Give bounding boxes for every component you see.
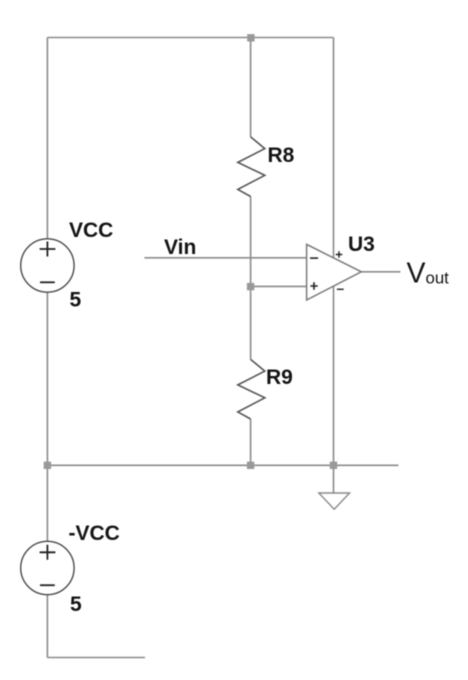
- wire left rail upper (top rail to V1 top): [46, 38, 48, 239]
- wire Vin input to U3 inverting input: [144, 257, 306, 259]
- pin mark plus (positive supply): [336, 251, 343, 258]
- pin mark minus (negative supply): [337, 288, 344, 290]
- wire bottom horizontal: [47, 657, 145, 659]
- junction node top rail / middle branch: [247, 34, 254, 41]
- op-amp U3: [307, 244, 362, 300]
- ground: [319, 493, 350, 509]
- resistor R8: [238, 137, 265, 197]
- pin mark minus (inverting input): [310, 257, 318, 259]
- wire right supply rail (top rail through U3 to ground bus): [333, 38, 335, 466]
- svg-text:5: 5: [70, 593, 82, 616]
- junction node bus right: [330, 462, 337, 469]
- junction node bus middle: [247, 462, 254, 469]
- svg-text:U3: U3: [348, 233, 375, 256]
- wire middle top (top rail to R8): [250, 38, 252, 137]
- wire V2 bottom down: [46, 595, 48, 658]
- svg-text:-VCC: -VCC: [69, 522, 120, 545]
- voltage source V1 (VCC): [21, 239, 74, 292]
- wire node A to U3 non-inverting input: [251, 285, 307, 287]
- voltage source V2 (-VCC): [21, 541, 74, 594]
- wire left rail lower (V1 bottom to ground bus): [46, 292, 48, 465]
- junction node bus left: [44, 462, 51, 469]
- svg-text:Vout: Vout: [407, 258, 450, 290]
- junction node A (divider midpoint): [247, 283, 254, 290]
- wire ground bus: [47, 464, 398, 466]
- wire middle (R8 to R9 through node A): [250, 197, 252, 360]
- svg-text:5: 5: [70, 289, 82, 312]
- resistor R9: [238, 359, 265, 419]
- svg-text:Vin: Vin: [164, 236, 196, 259]
- pin mark plus (non-inverting input): [310, 282, 317, 289]
- svg-text:R8: R8: [268, 144, 295, 167]
- wire top rail: [47, 37, 333, 39]
- svg-text:VCC: VCC: [69, 219, 113, 242]
- wire U3 output to Vout: [361, 271, 400, 273]
- wire ground stub: [333, 465, 335, 493]
- wire ground bus to V2 top: [46, 465, 48, 541]
- wire middle bottom (R9 to ground bus): [250, 419, 252, 465]
- svg-text:R9: R9: [266, 366, 293, 389]
